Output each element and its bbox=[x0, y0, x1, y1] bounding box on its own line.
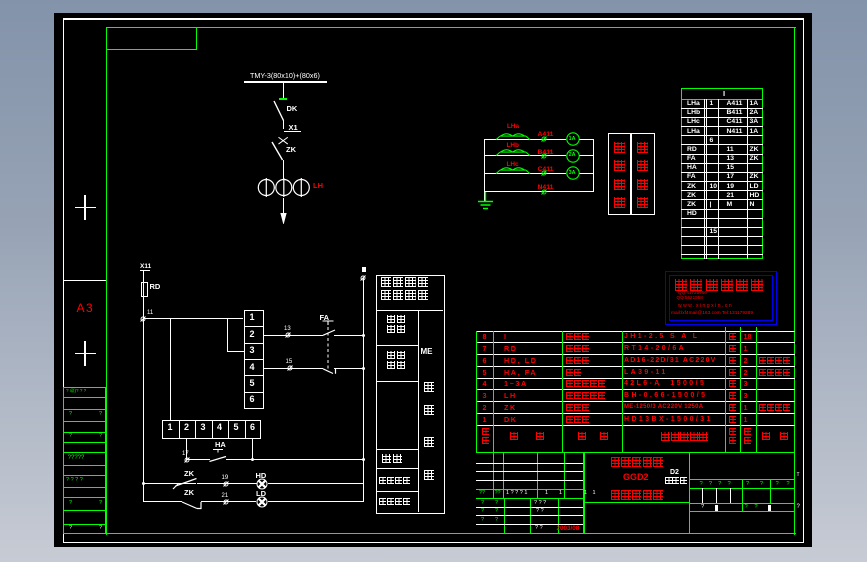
current transformer winding LHa bbox=[495, 131, 531, 141]
wire ZK1 to lamp bbox=[197, 483, 257, 484]
parts table header bbox=[482, 428, 489, 435]
sheet size label A3 bbox=[77, 302, 95, 315]
text 分闸指示 bbox=[379, 498, 412, 505]
wire number 15 bbox=[286, 359, 293, 365]
ZK aux NO contact bbox=[170, 475, 200, 491]
title strip box top-left bbox=[106, 27, 197, 50]
text 分闸 bbox=[387, 361, 406, 369]
circuit breaker ZK blade bbox=[266, 140, 288, 162]
wire node marker green bbox=[541, 170, 547, 176]
text ME bbox=[421, 348, 433, 356]
bus top label bbox=[362, 267, 366, 273]
wire number 11 bbox=[147, 310, 153, 316]
text 合闸指示 bbox=[379, 477, 412, 484]
outgoing feeder arrow bbox=[278, 209, 290, 224]
logo qq line2 bbox=[677, 296, 703, 301]
current transformer winding LHc bbox=[495, 165, 531, 175]
branch into cell 3 bbox=[227, 351, 244, 352]
drawing title box bbox=[583, 452, 584, 533]
frame right bbox=[794, 27, 795, 535]
text 及熔断器 bbox=[381, 290, 431, 300]
bus label TMY-3(80x10)+(80x6) bbox=[250, 72, 320, 80]
box 电流回路 bbox=[631, 133, 656, 215]
red char 测量表计 bbox=[614, 142, 625, 153]
green connection tick bbox=[279, 98, 287, 100]
wire label C411 bbox=[538, 166, 554, 173]
measurement rail 1 right bbox=[579, 139, 594, 140]
measurement left bus bbox=[484, 139, 485, 202]
logo box inner bbox=[669, 275, 773, 321]
wire number 19 bbox=[222, 475, 229, 481]
wire lamp HD to bus bbox=[268, 483, 364, 484]
text 控 bbox=[424, 382, 434, 392]
wire label B411 bbox=[538, 149, 554, 156]
frame top bbox=[106, 27, 796, 28]
current transformer winding LHb bbox=[495, 147, 531, 157]
wire ZK2 to LD bbox=[201, 501, 256, 502]
label LH red bbox=[313, 182, 323, 190]
margin revision boxes bbox=[63, 387, 107, 388]
row line bbox=[376, 381, 418, 382]
left control bus bbox=[143, 319, 144, 503]
measurement rail 3 right bbox=[579, 173, 594, 174]
text 失压 bbox=[387, 351, 406, 359]
X1 underline bbox=[284, 131, 301, 132]
measurement rail 2 left bbox=[485, 155, 567, 156]
label RD bbox=[150, 283, 161, 291]
measurement right bus bbox=[593, 139, 594, 192]
node 17 marker bbox=[184, 457, 190, 463]
ammeter 2A bbox=[566, 149, 580, 163]
wire to HA bbox=[187, 459, 210, 460]
label LHa bbox=[507, 124, 519, 131]
label DK bbox=[287, 105, 298, 113]
terminal label X11 bbox=[140, 264, 151, 271]
title 低压配电柜 bbox=[611, 457, 664, 467]
row line bbox=[376, 310, 443, 311]
registration cross upper bbox=[75, 207, 96, 208]
logo url bbox=[678, 304, 733, 309]
disconnector DK bbox=[268, 99, 290, 123]
ZK aux NC contact bbox=[181, 500, 207, 512]
column divider bbox=[418, 310, 419, 512]
text 制 bbox=[424, 405, 434, 415]
wire strip cell6 down bbox=[252, 438, 253, 461]
branch to strip cell 1 bbox=[170, 319, 171, 421]
wire strip cell2 down bbox=[186, 438, 187, 461]
text 分闸 bbox=[387, 325, 406, 333]
wire ZK to CT bbox=[283, 160, 284, 179]
wire number 21 bbox=[222, 493, 229, 499]
frame bottom bbox=[106, 533, 796, 534]
terminal strip 1-6 horizontal bbox=[162, 420, 261, 439]
label LHb bbox=[507, 143, 519, 150]
paper border left bbox=[63, 18, 64, 543]
logo box outer bbox=[665, 271, 777, 325]
node 11 marker bbox=[140, 316, 146, 322]
text 合闸 bbox=[382, 454, 404, 463]
wire cell2 to FA bbox=[263, 335, 323, 336]
wire label A411 bbox=[538, 131, 554, 138]
wire DK to X1 bbox=[283, 120, 284, 129]
title block revision table upper bbox=[493, 452, 494, 499]
ground symbol bbox=[477, 192, 495, 212]
terminal box X1 cells 1-6 bbox=[244, 310, 264, 409]
main busbar bbox=[244, 81, 327, 83]
logo text 星欣设计图库 bbox=[675, 279, 767, 291]
FA NO contact blade bbox=[322, 328, 336, 337]
logo mail bbox=[671, 311, 753, 316]
X11 underline bbox=[140, 270, 150, 271]
label LD bbox=[256, 490, 266, 498]
terminal X mark bbox=[277, 136, 291, 147]
measurement rail 3 left bbox=[485, 173, 567, 174]
row line bbox=[376, 345, 418, 346]
cabinet label D2 出线柜 bbox=[670, 469, 679, 476]
paper border top bbox=[63, 18, 804, 19]
label ZK aux 1 bbox=[184, 470, 194, 478]
row line bbox=[376, 449, 418, 450]
node 19 marker bbox=[223, 481, 229, 487]
branch down to box cell 3 bbox=[227, 319, 228, 353]
function column box bbox=[376, 275, 445, 514]
margin divider bbox=[63, 280, 107, 281]
fuse RD bbox=[141, 282, 148, 298]
registration cross lower bbox=[75, 353, 96, 354]
wire bus to ZK1 bbox=[143, 483, 196, 484]
signal lamp LD bbox=[256, 496, 268, 508]
pushbutton FA actuator bbox=[321, 319, 335, 371]
bus top node marker bbox=[360, 275, 366, 281]
wire node marker green bbox=[541, 136, 547, 142]
title 电气原理图 bbox=[611, 490, 664, 500]
label FA bbox=[320, 314, 330, 322]
text 路 bbox=[424, 470, 434, 480]
frame left bbox=[106, 27, 107, 535]
label ZK aux 2 bbox=[184, 489, 194, 497]
paper border bottom bbox=[63, 542, 804, 543]
pushbutton HA contact bbox=[208, 447, 228, 462]
wire lamp LD to bus bbox=[268, 501, 364, 502]
wire label N411 bbox=[538, 184, 554, 191]
wire fuse to node 11 bbox=[143, 282, 144, 319]
wire bus to DK bbox=[283, 83, 284, 99]
terminal wiring table bbox=[681, 88, 763, 259]
right control bus bbox=[363, 278, 364, 503]
terminal label X1 bbox=[289, 124, 298, 132]
margin marks right bbox=[797, 473, 800, 478]
FA NC contact blade lower bbox=[322, 367, 338, 376]
label HA bbox=[215, 441, 226, 449]
ammeter 1A bbox=[566, 132, 580, 146]
wire FA to right bus bbox=[334, 335, 364, 336]
box 测量表计 bbox=[608, 133, 631, 215]
node 21 marker bbox=[223, 499, 229, 505]
title block right section bbox=[689, 479, 795, 480]
wire cell4 to FA lower bbox=[263, 368, 323, 369]
label HD bbox=[256, 472, 267, 480]
row line bbox=[376, 468, 418, 469]
node 13 marker bbox=[285, 332, 291, 338]
measurement rail 2 right bbox=[579, 155, 594, 156]
signal lamp HD bbox=[256, 478, 268, 490]
row line bbox=[376, 491, 418, 492]
logo qq line1 bbox=[678, 291, 707, 296]
wire bus to ZK2 bbox=[143, 501, 182, 502]
wire HA to right bus bbox=[226, 459, 364, 460]
wire number 13 bbox=[284, 326, 291, 332]
wire node marker green bbox=[541, 189, 547, 195]
label LHc bbox=[507, 162, 519, 169]
wire CT to arrow bbox=[283, 198, 284, 212]
text 分励 bbox=[387, 315, 406, 323]
measurement rail 1 left bbox=[485, 139, 567, 140]
wire node marker green bbox=[541, 153, 547, 159]
node 15 marker bbox=[287, 365, 293, 371]
ammeter 3A bbox=[566, 166, 580, 180]
wire X11 to fuse bbox=[143, 270, 144, 282]
parts list table bbox=[476, 331, 795, 332]
text 回 bbox=[424, 437, 434, 447]
wire number 17 bbox=[182, 451, 189, 457]
wire to right bus bbox=[334, 368, 364, 369]
text 控制电源 bbox=[381, 277, 431, 287]
title block signature table lower bbox=[504, 498, 505, 533]
label ZK bbox=[286, 146, 296, 154]
neutral rail N411 bbox=[485, 191, 594, 192]
paper border right bbox=[803, 18, 804, 543]
current transformers LH (three circles) bbox=[256, 176, 312, 199]
control feed wire bbox=[143, 318, 243, 319]
red char 电流回路 bbox=[637, 142, 648, 153]
